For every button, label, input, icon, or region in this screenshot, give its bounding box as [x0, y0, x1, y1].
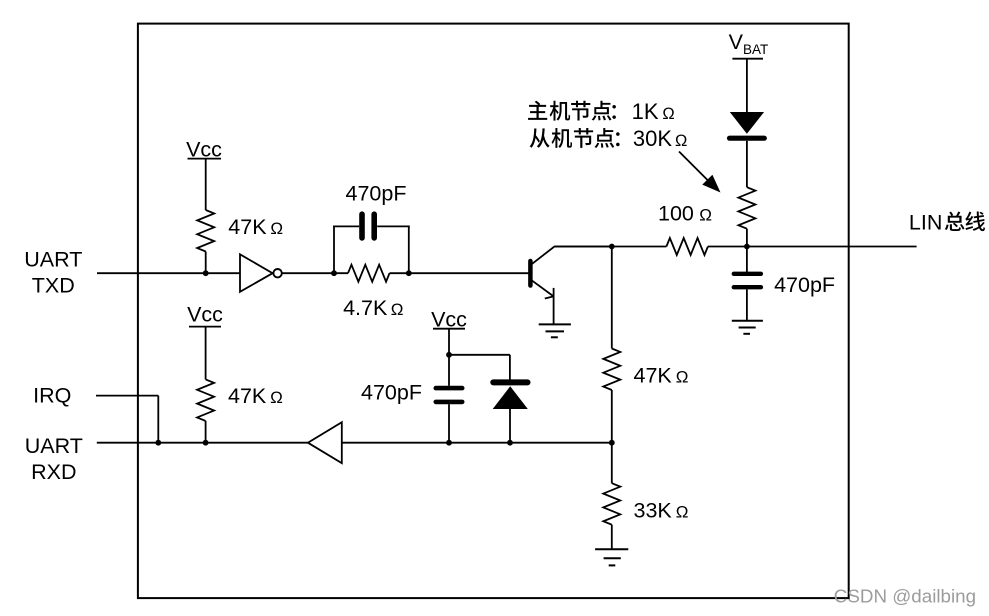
resistor 1K/30K pullup: [738, 187, 755, 229]
node RC left: [331, 270, 337, 276]
capacitor 470pF (LIN): [734, 272, 761, 276]
diode D1 (VBAT): [730, 112, 764, 134]
wire Vcc1 to R: [205, 159, 207, 210]
capacitor 470pF (parallel): [359, 214, 365, 238]
svg-text:47K: 47K: [228, 384, 267, 408]
svg-text:4.7K: 4.7K: [343, 296, 388, 320]
inverter U1 (TXD): [240, 254, 273, 291]
wire diode to RXD: [509, 409, 511, 443]
svg-text:CSDN @dailbing: CSDN @dailbing: [834, 586, 976, 607]
wire VBAT to diode: [746, 59, 748, 113]
svg-text:30K: 30K: [633, 126, 672, 151]
svg-text:TXD: TXD: [32, 274, 75, 298]
wire cap top-right: [377, 225, 410, 227]
resistor 4.7K: [348, 265, 390, 282]
resistor 100R: [666, 238, 708, 255]
annotation master/slave node values: [528, 101, 547, 120]
enclosure box: [138, 24, 849, 599]
node diode/RXD junction: [507, 440, 513, 446]
svg-text:UART: UART: [24, 248, 82, 272]
svg-text:Ω: Ω: [676, 502, 689, 521]
svg-text:IRQ: IRQ: [33, 384, 71, 408]
svg-text:Ω: Ω: [675, 132, 687, 150]
svg-text:1K: 1K: [632, 99, 659, 124]
svg-text:Ω: Ω: [391, 300, 404, 319]
wire LIN to bus: [708, 246, 917, 248]
ground (33K): [595, 548, 628, 550]
resistor 47K (TXD pullup): [197, 210, 214, 252]
annotation arrow: [679, 152, 711, 184]
node Vcc3/diode branch: [446, 352, 452, 358]
node collector/divider junction: [609, 244, 615, 250]
node TXD/R47K junction: [203, 270, 209, 276]
transistor Q1 emitter: [532, 280, 554, 296]
wire RC left vertical: [333, 226, 335, 274]
wire UART RXD net: [97, 442, 612, 444]
wire R to TXD node: [205, 252, 207, 274]
wire Vcc2 to R: [205, 327, 207, 380]
svg-text:47K: 47K: [228, 215, 267, 239]
transistor Q1 base bar: [528, 261, 533, 286]
svg-text:RXD: RXD: [31, 460, 76, 484]
ground (Q1 emitter): [539, 323, 571, 325]
node LIN/pullup junction: [744, 244, 750, 250]
svg-text:Ω: Ω: [676, 367, 689, 386]
svg-text:470pF: 470pF: [774, 273, 835, 297]
wire R to LIN node: [746, 229, 748, 247]
diode D2 (clamp): [493, 379, 527, 385]
svg-text:V: V: [729, 30, 744, 54]
transistor Q1 collector: [532, 247, 613, 265]
node RXD/divider junction: [609, 440, 615, 446]
svg-text:470pF: 470pF: [361, 380, 422, 404]
svg-text:470pF: 470pF: [346, 181, 407, 205]
wire IRQ input: [96, 395, 158, 397]
wire collector node down: [611, 247, 613, 349]
svg-text:47K: 47K: [634, 363, 673, 387]
svg-text:UART: UART: [25, 434, 83, 458]
wire R to RXD node: [205, 421, 207, 443]
resistor 47K (divider top): [603, 349, 620, 391]
inverter U2 (RXD): [308, 422, 342, 463]
wire LIN node to cap: [746, 247, 748, 273]
wire cap to RXD: [448, 404, 450, 443]
svg-text:33K: 33K: [634, 498, 673, 522]
capacitor 470pF (filter): [436, 386, 462, 391]
wire cap top-left: [333, 225, 359, 227]
svg-text:Vcc: Vcc: [431, 307, 467, 331]
wire cap to ground: [746, 289, 748, 320]
wire TXD to transistor base: [390, 272, 529, 274]
wire Vcc3 down: [448, 329, 450, 386]
wire UART TXD input: [97, 272, 348, 274]
svg-text:Vcc: Vcc: [187, 302, 223, 326]
node IRQ/RXD junction: [155, 440, 161, 446]
wire LIN net: [554, 246, 666, 248]
svg-text:100: 100: [658, 201, 694, 225]
wire diode to R pullup: [746, 141, 748, 187]
resistor 47K (RXD pullup): [197, 379, 214, 421]
svg-text:Vcc: Vcc: [186, 137, 222, 161]
node RC right: [406, 270, 412, 276]
svg-text:Ω: Ω: [270, 219, 283, 238]
wire branch to diode: [449, 354, 510, 356]
wire RC right vertical: [408, 226, 410, 274]
svg-text:Ω: Ω: [662, 105, 674, 123]
wire 33K to ground: [611, 525, 613, 550]
svg-text:Ω: Ω: [699, 205, 712, 224]
svg-text:LIN: LIN: [909, 210, 942, 234]
svg-text:BAT: BAT: [743, 42, 768, 57]
resistor 33K: [603, 483, 620, 525]
node RXD/R47K junction: [203, 440, 209, 446]
svg-text:Ω: Ω: [270, 388, 283, 407]
node cap/RXD junction: [446, 440, 452, 446]
wire divider middle: [611, 390, 613, 483]
ground (LIN cap): [732, 320, 763, 322]
